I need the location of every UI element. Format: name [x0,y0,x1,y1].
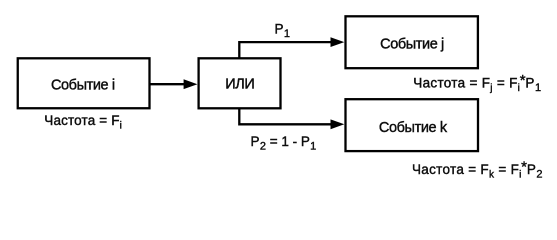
box: Событие j [346,16,478,68]
wire: branch P2 from ИЛИ bottom to Событие k (arrow) [239,109,344,129]
label: P2 = 1 - P1 [251,134,317,153]
caption: Частота = Fi [44,113,122,132]
label: P1 [275,21,290,40]
wire: branch P1 from ИЛИ top to Событие j (arrow) [239,37,344,57]
svg-text:Событие j: Событие j [380,37,444,53]
svg-text:ИЛИ: ИЛИ [225,77,254,93]
caption: Частота = Fk = Fi*P2 [412,159,543,181]
svg-text:Событие k: Событие k [379,120,448,136]
box: ИЛИ [199,58,281,108]
svg-text:Событие i: Событие i [51,78,115,94]
box: Событие k [346,99,479,151]
wire: Событие i to ИЛИ (arrow) [150,79,198,89]
caption: Частота = Fj = Fi*P1 [413,72,541,94]
box: Событие i [18,58,150,108]
